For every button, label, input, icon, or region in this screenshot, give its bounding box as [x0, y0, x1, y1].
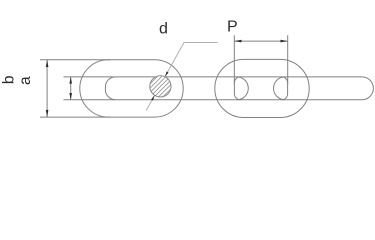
chain link L2 inner hole left arc — [234, 77, 240, 100]
wire: side-view link bar (top edge, rounded right cap, bottom edge) — [64, 77, 374, 100]
dimension b: top arrow — [69, 77, 72, 84]
svg-text:d: d — [159, 20, 168, 37]
chain link L2 outer outline — [215, 59, 309, 117]
cross-section hatching 45deg — [129, 72, 193, 101]
dimension b: vertical dimension line — [70, 77, 72, 100]
dimension P: extension line left — [233, 35, 235, 84]
chain link L2 inner hole right arc — [282, 77, 288, 100]
chain link L1 outer outline — [80, 60, 183, 117]
dimension P: extension line right — [287, 35, 289, 84]
side link rounded end cap (left, inside L2) — [237, 77, 248, 100]
d diameter arrowhead lower-left — [151, 95, 155, 100]
svg-text:P: P — [227, 19, 238, 36]
chain link L1 inner hole left arc — [105, 77, 115, 100]
leader line for d (diagonal through circle + horizontal shelf) — [146, 43, 217, 111]
dimension P: horizontal dimension line — [234, 40, 287, 42]
dimension a: top arrow — [46, 60, 49, 67]
dimension a: vertical dimension line — [46, 60, 48, 117]
dimension a: extension line bottom — [40, 116, 110, 118]
dimension a: extension line top — [40, 59, 110, 61]
dimension P: right arrow — [281, 40, 288, 43]
wire cross-section circle (diameter d), white fill — [150, 76, 171, 97]
svg-text:b: b — [0, 76, 17, 85]
dimension a: bottom arrow — [46, 110, 49, 117]
dimension b: bottom arrow — [69, 93, 72, 100]
dimension P: left arrow — [234, 40, 241, 43]
d diameter arrowhead upper-right — [165, 71, 169, 76]
side link rounded end cap (right, inside L2) — [274, 77, 285, 100]
svg-text:a: a — [17, 76, 34, 85]
